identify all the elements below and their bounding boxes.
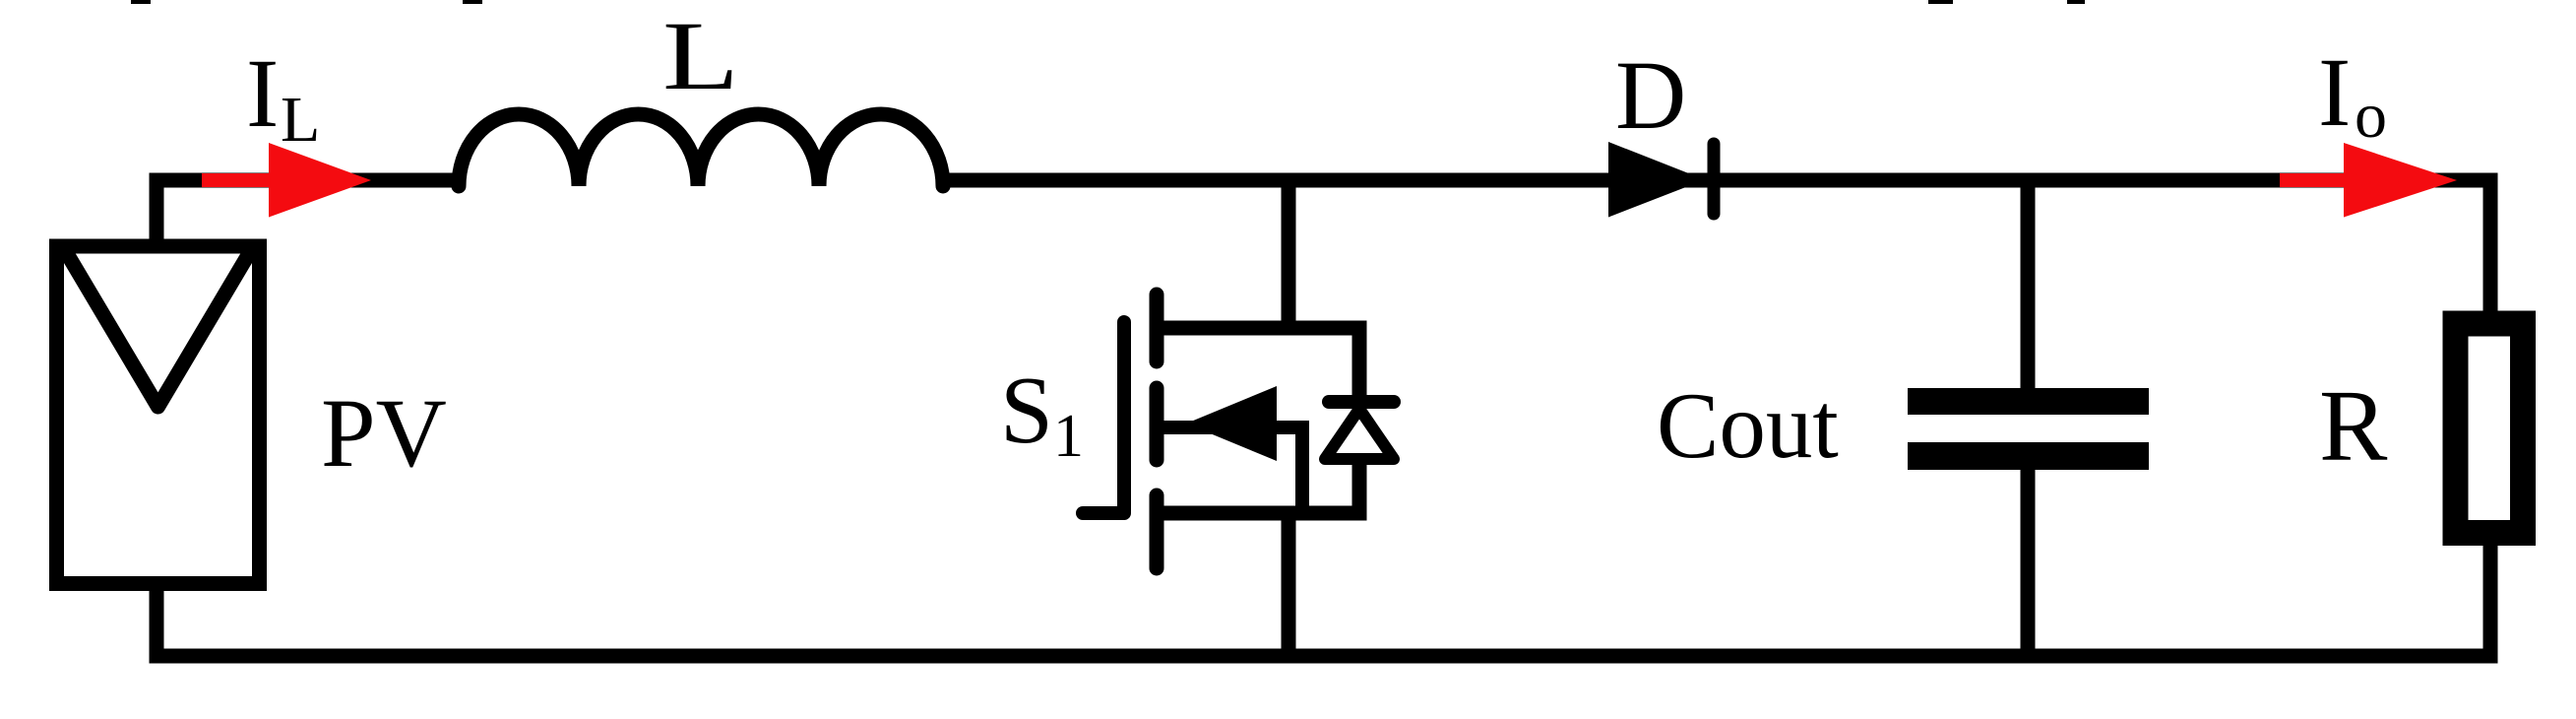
mosfet S1: [1083, 294, 1359, 568]
channel dash middle: [1150, 388, 1164, 460]
wire bottom rail: [150, 649, 2498, 664]
svg-text:o: o: [2355, 80, 2387, 152]
capacitor Cout bottom lead: [2021, 468, 2036, 656]
svg-text:PV: PV: [321, 378, 447, 488]
label S1: [1000, 358, 1084, 470]
capacitor Cout top plate: [1908, 388, 2149, 415]
cropped text fragment 4: [2067, 0, 2085, 4]
gate bar: [1117, 322, 1131, 511]
svg-text:D: D: [1615, 40, 1686, 150]
svg-text:I: I: [246, 38, 279, 148]
svg-text:S: S: [1000, 358, 1053, 463]
wire right vertical upper: [2483, 173, 2498, 314]
wire top-left segment: [150, 173, 466, 188]
source connector bottom: [1157, 459, 1359, 513]
gate lead: [1083, 506, 1124, 520]
current arrow IL: [202, 143, 371, 218]
channel dash bottom: [1150, 495, 1164, 568]
source arrow head: [1186, 386, 1277, 461]
PV source rectangle: [57, 246, 260, 584]
wire left vertical lower: [150, 583, 164, 662]
channel dash top: [1150, 294, 1164, 361]
capacitor Cout bottom plate: [1908, 442, 2149, 470]
wire top-middle-right segment: [938, 173, 2498, 188]
wire mosfet vertical lower: [1282, 513, 1296, 656]
svg-text:I: I: [2318, 37, 2351, 147]
body diode cathode bar: [1329, 395, 1394, 409]
diode D head: [1608, 142, 1705, 218]
svg-text:Cout: Cout: [1657, 373, 1839, 478]
inductor L: [459, 114, 943, 186]
svg-text:R: R: [2319, 369, 2388, 483]
cropped text fragment 1: [131, 0, 151, 4]
drain connector top: [1157, 328, 1359, 402]
resistor R: [2456, 324, 2524, 534]
capacitor Cout top lead: [2021, 180, 2036, 390]
body diode triangle: [1325, 409, 1394, 459]
svg-text:L: L: [281, 84, 320, 156]
source arrow shaft: [1160, 427, 1302, 513]
cropped text fragment 2: [463, 0, 482, 4]
cropped text fragment 3: [1928, 0, 1953, 4]
wire drain vertical upper: [1282, 173, 1296, 328]
svg-text:1: 1: [1053, 403, 1084, 470]
label Io: [2318, 37, 2387, 152]
wire right vertical lower: [2483, 544, 2498, 662]
diode D cathode bar: [1708, 144, 1721, 214]
svg-text:L: L: [662, 1, 739, 110]
label IL: [246, 38, 320, 156]
PV chevron: [65, 250, 251, 407]
current arrow Io: [2280, 143, 2457, 218]
wire left vertical upper: [150, 173, 164, 249]
